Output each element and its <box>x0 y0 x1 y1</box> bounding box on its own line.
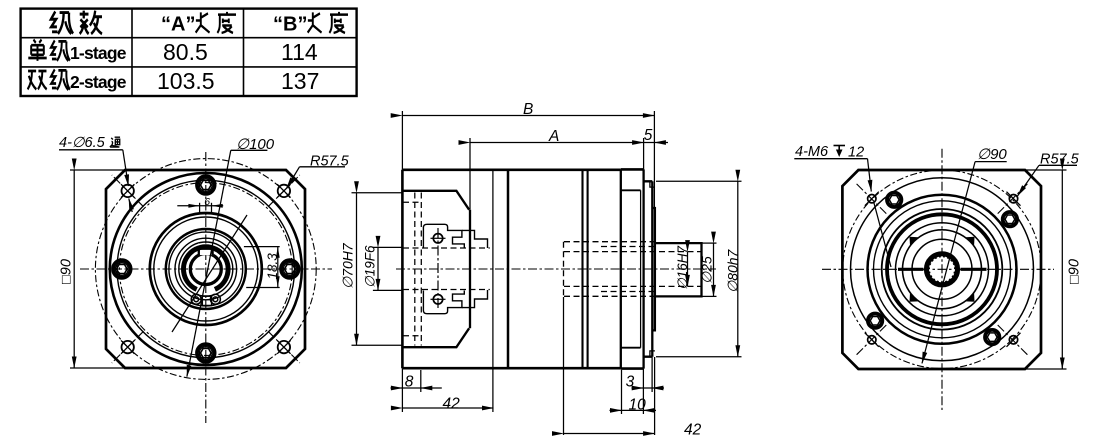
svg-text:5: 5 <box>644 127 653 144</box>
svg-text:6: 6 <box>204 196 210 208</box>
svg-text:B: B <box>523 101 533 118</box>
svg-text:114: 114 <box>281 39 318 65</box>
svg-text:80.5: 80.5 <box>163 39 208 65</box>
svg-text:∅90: ∅90 <box>977 146 1007 163</box>
svg-text:137: 137 <box>281 68 319 94</box>
svg-text:□90: □90 <box>59 259 75 284</box>
svg-text:18.3: 18.3 <box>265 253 280 280</box>
svg-text:8: 8 <box>405 374 414 391</box>
svg-text:“A”: “A” <box>161 14 195 36</box>
svg-text:10: 10 <box>629 397 647 414</box>
svg-text:4-M6: 4-M6 <box>795 144 829 160</box>
svg-text:∅70H7: ∅70H7 <box>340 242 356 289</box>
svg-text:4-∅6.5: 4-∅6.5 <box>59 135 106 151</box>
svg-text:1-stage: 1-stage <box>70 43 127 63</box>
svg-text:42: 42 <box>684 422 702 436</box>
svg-text:42: 42 <box>443 396 461 413</box>
svg-text:A: A <box>548 128 559 145</box>
svg-text:□90: □90 <box>1067 259 1083 284</box>
svg-text:∅80h7: ∅80h7 <box>725 248 741 293</box>
svg-text:2-stage: 2-stage <box>70 72 127 92</box>
svg-text:∅16H7: ∅16H7 <box>675 245 690 290</box>
svg-text:“B”: “B” <box>273 14 307 36</box>
svg-text:3: 3 <box>626 374 635 391</box>
svg-text:103.5: 103.5 <box>157 68 215 94</box>
svg-text:∅19F6: ∅19F6 <box>363 245 378 288</box>
svg-text:∅25: ∅25 <box>699 256 715 284</box>
